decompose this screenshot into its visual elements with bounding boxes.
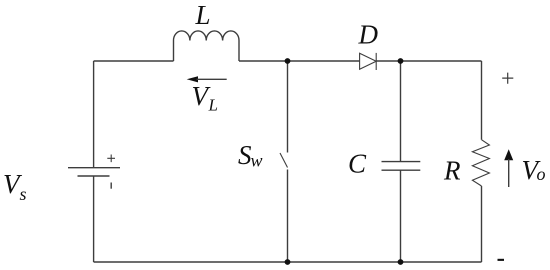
wire right vertical upper (corner to resistor) [481,61,483,140]
output plus sign [502,73,513,84]
wire capacitor branch upper [400,61,402,162]
node dot cap-bottom [398,259,404,265]
capacitor C bottom plate [382,169,421,171]
wire top middle (inductor to diode) [239,60,360,62]
node dot switch-top [285,58,291,64]
svg-text:C: C [348,149,367,179]
wire left vertical lower (battery to bottom) [93,176,95,262]
battery plus sign [107,155,115,163]
battery Vs bottom plate [78,175,110,177]
node dot switch-bottom [285,259,291,265]
wire left vertical upper (to battery) [93,61,95,168]
wire top-left horizontal [94,60,174,62]
wire switch branch upper [287,61,289,153]
svg-text:R: R [443,156,461,186]
wire capacitor branch lower [400,170,402,262]
wire bottom horizontal [94,261,482,263]
inductor L coil [173,31,239,61]
svg-text:L: L [195,0,211,30]
diode D triangle [360,53,377,69]
resistor R zigzag [472,140,489,186]
wire right vertical lower (resistor to bottom) [481,186,483,262]
battery Vs top plate [68,167,120,169]
svg-text:L: L [208,96,218,115]
svg-text:s: s [20,184,27,204]
node dot cap-top [398,58,404,64]
battery minus tick [110,183,112,189]
diode D cathode bar [375,53,377,70]
svg-text:w: w [251,151,263,171]
svg-text:D: D [358,19,379,49]
wire switch branch lower [287,170,289,263]
wire top right (diode to corner) [376,60,481,62]
output minus sign [498,259,505,261]
VL arrow [187,76,198,82]
switch Sw blade [280,153,288,168]
capacitor C top plate [382,161,421,163]
Vo arrow [504,149,513,160]
svg-text:o: o [537,164,546,184]
